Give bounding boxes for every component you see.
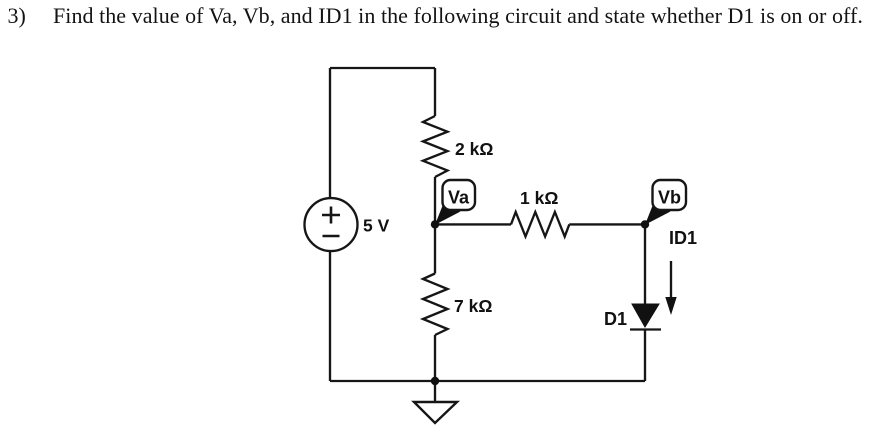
svg-text:5 V: 5 V <box>363 216 390 236</box>
svg-text:Va: Va <box>448 188 470 208</box>
svg-text:D1: D1 <box>604 309 627 329</box>
svg-text:3): 3) <box>8 3 26 28</box>
svg-text:1 kΩ: 1 kΩ <box>520 188 558 208</box>
svg-text:2 kΩ: 2 kΩ <box>455 139 493 159</box>
svg-text:ID1: ID1 <box>669 228 697 248</box>
svg-text:Vb: Vb <box>658 188 681 208</box>
svg-text:7 kΩ: 7 kΩ <box>454 296 492 316</box>
svg-text:Find the value of Va, Vb, and: Find the value of Va, Vb, and ID1 in the… <box>53 3 863 28</box>
